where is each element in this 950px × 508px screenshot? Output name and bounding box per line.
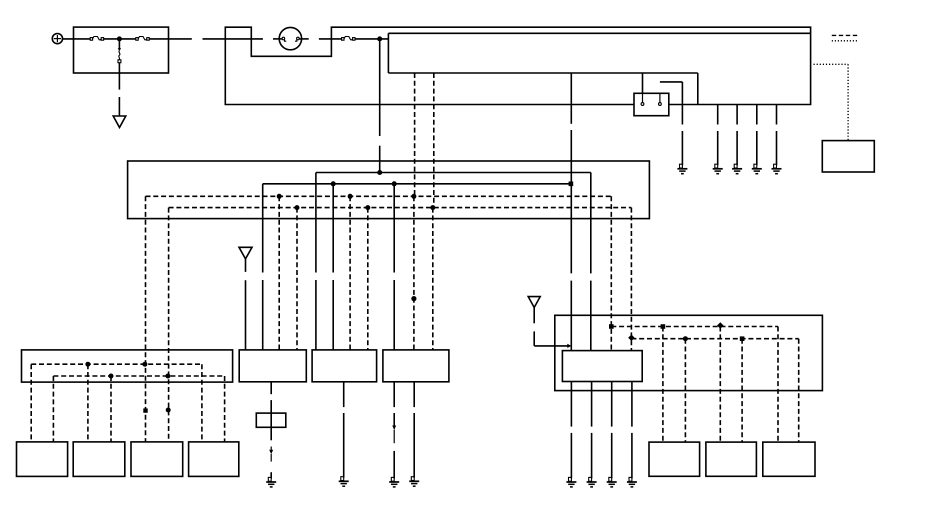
node on LH1 b (142, 362, 147, 367)
splice node on dashed wire to box C (411, 296, 416, 301)
wire box C down left (393, 382, 395, 426)
node on RH2 a (683, 336, 688, 341)
wire (dashed) D2 to box C (432, 208, 434, 350)
node on D2 a (295, 205, 300, 210)
connector pin 2 (659, 93, 662, 105)
legend dashed sample (832, 34, 859, 36)
node on LH2 a (109, 374, 114, 379)
speaker box 3 (131, 442, 183, 477)
node on D1 c (411, 194, 416, 199)
node diamond on RH2 at feed (628, 334, 635, 341)
ground G1 (arrow) (113, 116, 126, 128)
ignition switch SW1 (273, 27, 309, 49)
node on W2 b (392, 181, 397, 186)
ground G8 (339, 477, 349, 487)
wire box A down (270, 382, 272, 441)
connector pin 1 (641, 93, 644, 105)
fuse F4 (342, 37, 355, 41)
node on D2 b (365, 205, 370, 210)
wire W1 (316, 172, 591, 174)
box A (tuner unit) (239, 350, 306, 382)
speaker box 4 (189, 442, 239, 477)
wire antenna A1 to box A (245, 259, 247, 350)
ground G9 (389, 477, 399, 487)
box C (changer unit) (383, 350, 449, 382)
ground G3 (713, 164, 723, 174)
wire to ground G9 (393, 451, 395, 479)
splice node round to speaker 3 (166, 408, 171, 413)
node on W2 a (331, 181, 336, 186)
node on D2 c (430, 205, 435, 210)
wire to ground G5 (756, 105, 758, 166)
inline connector arrow to amplifier feed (567, 344, 571, 348)
ground G13 (607, 477, 617, 487)
fuse F2 (136, 37, 149, 41)
wire (dashed) D1 corner down to left cluster (145, 196, 147, 442)
splice node square to speaker 3 (143, 408, 147, 412)
wire node N1 down to junction box (379, 39, 381, 173)
wire battery to fuse box (63, 38, 91, 40)
ground G14 (627, 477, 637, 487)
node on LH2 b (165, 374, 170, 379)
rear speaker box 2 (706, 442, 757, 476)
junction box (middle band) (128, 161, 650, 219)
ground G2 (677, 164, 687, 174)
wire (dashed) D2 to box A (296, 208, 298, 350)
fuse box (battery junction box) (74, 27, 169, 73)
wire LH1 (dashed) (31, 363, 202, 365)
node square on RH2 b (740, 336, 745, 341)
wire pin 2 loop (660, 82, 683, 165)
wire fuse F4 to head unit (355, 38, 388, 40)
ground G7 (266, 477, 276, 487)
wire (dashed) RH2 corner to rear speaker 3 (798, 339, 800, 442)
wire RH2 (dashed) (631, 338, 798, 340)
node on LH1 a (85, 362, 90, 367)
inline connector arrow below box C (392, 426, 396, 444)
wire amplifier to ground G14 (631, 382, 633, 479)
wire (dashed) D1 corner down to right cluster (610, 196, 612, 350)
wire W2 (263, 183, 570, 185)
node diamond on RH1 b (717, 322, 724, 329)
wire (dashed) LH1 node to speaker 2 (87, 364, 89, 442)
wire (dashed) D2 corner down to right cluster (630, 208, 632, 351)
dotted link head unit to module (814, 64, 849, 140)
node on D1 b (348, 194, 353, 199)
node square on RH1 a (661, 324, 666, 329)
wire (dashed) head unit to junction box 2 (433, 73, 435, 208)
wire W2 node down to box C (393, 184, 395, 350)
node square on RH1 at feed (609, 324, 614, 329)
wire fuse box to ignition switch housing (169, 38, 263, 40)
wire D1 (dashed) (146, 195, 612, 197)
wire to ground G3 (717, 105, 719, 166)
ground G6 (772, 164, 782, 174)
rear speaker box 3 (763, 442, 815, 476)
head unit (top inner box) (388, 33, 810, 104)
wire LH2 (dashed) (53, 375, 224, 377)
wire D2 (dashed) (169, 207, 632, 209)
speaker box 1 (17, 442, 68, 477)
wire (dashed) RH1 to rear speaker 2 (719, 327, 721, 443)
ignition switch housing (stepped box) (225, 27, 810, 104)
wire (149, 38, 168, 40)
noise filter box (256, 413, 286, 427)
wire W2 node down to box B (332, 184, 334, 350)
wire (dashed) D1 to box A (278, 196, 280, 350)
wire (dashed) LH2 right corner to speaker 4 (224, 376, 226, 442)
node square on W2 at long vertical (569, 182, 574, 187)
wire to ground (118, 63, 120, 116)
wire (dashed) LH2 node to speaker 2 (110, 376, 112, 442)
ground G5 (752, 164, 762, 174)
wire W2 corner down to box A (262, 184, 264, 350)
amplifier cluster box (right) (555, 315, 823, 390)
wire junction down (118, 39, 120, 49)
wire amplifier to ground G13 (611, 382, 613, 479)
speaker box 2 (73, 442, 125, 477)
wire to ground G6 (776, 105, 778, 166)
rear speaker box 1 (649, 442, 700, 476)
ground G11 (566, 477, 576, 487)
wire (dashed) D2 corner down to left cluster (168, 208, 170, 442)
ground G10 (409, 477, 419, 487)
box B (player unit) (312, 350, 377, 382)
antenna A1 (239, 247, 252, 259)
wire box B down to ground G8 (343, 382, 345, 478)
wire (dashed) D1 to box B (349, 196, 351, 350)
wire (dashed) RH1 to rear speaker 1 (662, 327, 664, 443)
wire (104, 38, 136, 40)
left speaker relay box (cluster) (22, 350, 233, 382)
wire (dashed) LH1 left corner to speaker 1 (30, 364, 32, 442)
wire (dashed) LH1 right corner to speaker 4 (201, 364, 203, 442)
wire to ground G7 (270, 472, 272, 478)
wire long vertical head unit to amplifier (570, 73, 572, 351)
module box (top right) (822, 141, 874, 172)
wire box C down right to ground G10 (413, 382, 415, 478)
ground G12 (587, 477, 597, 487)
wire to ground G4 (736, 105, 738, 166)
wire W1 corner down to box B (315, 173, 317, 350)
antenna A2 (528, 297, 540, 308)
battery B1 (52, 34, 62, 44)
legend dotted sample (832, 40, 859, 42)
wire amplifier to ground G11 (570, 382, 572, 479)
wire RH1 (dashed) (611, 326, 778, 328)
inline connector arrow below box A (269, 447, 273, 462)
wire (dashed) D2 to box B (367, 208, 369, 350)
wire W1 corner down to amplifier box (590, 173, 592, 351)
fuse F1 (90, 37, 103, 41)
ground G4 (732, 164, 742, 174)
amplifier unit box (562, 351, 642, 382)
node on W1 (377, 170, 382, 175)
fuse F3 (vertical fusible link) (118, 48, 121, 63)
wire antenna A2 down (534, 308, 568, 346)
wire (dashed) RH2 to rear speaker 1 (684, 339, 686, 442)
wire amplifier to ground G12 (591, 382, 593, 479)
wire head unit to connector pin 1 (642, 73, 644, 93)
node on D1 a (277, 194, 282, 199)
wire (dashed) head unit to junction box 1 (414, 73, 416, 196)
wire (dashed) RH1 corner to rear speaker 3 (777, 327, 779, 443)
connector C1 (two-pin) (634, 93, 669, 115)
wire (dashed) D1 to box C (413, 196, 415, 350)
node: fuse box junction (117, 36, 122, 41)
node N1 (377, 36, 382, 41)
wire switch to fuse F4 (319, 38, 342, 40)
wire (dashed) LH2 left corner to speaker 1 (52, 376, 54, 442)
wire (dashed) RH2 to rear speaker 2 (741, 339, 743, 442)
